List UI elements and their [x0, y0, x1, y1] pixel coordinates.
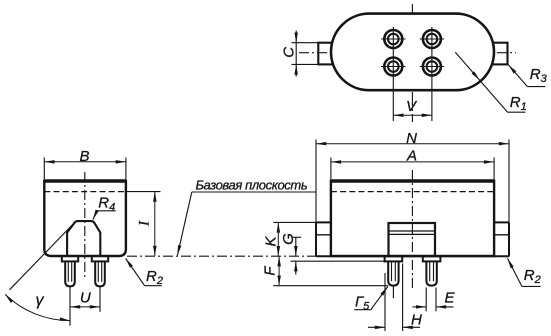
radius label R4 leader	[93, 211, 97, 220]
top view: pin column line right	[431, 27, 433, 121]
dimension B	[44, 161, 126, 163]
svg-text:Базовая плоскость: Базовая плоскость	[196, 177, 308, 192]
svg-text:E: E	[445, 289, 456, 306]
dimension G top tick	[291, 236, 301, 238]
side view: body top edge thick	[44, 179, 127, 182]
front view: bottom edge	[316, 255, 509, 257]
top view: oval package body	[331, 14, 494, 91]
front view: right tab	[508, 222, 510, 256]
side view: left pin	[65, 261, 75, 286]
front view: centerline	[411, 170, 413, 291]
front view: right pin	[426, 261, 436, 285]
top view: right mounting tab	[493, 43, 508, 65]
dimension A extension lines	[330, 158, 332, 180]
dimension N extension lines	[315, 140, 317, 223]
radius label R1 leader	[455, 52, 507, 112]
base plane label leader	[177, 192, 191, 255]
dimension K	[277, 222, 279, 256]
right pin axis extension	[99, 287, 101, 312]
front view: central block	[389, 223, 436, 256]
dimension A	[331, 161, 494, 163]
dimension B extension lines	[43, 158, 45, 180]
svg-text:N: N	[406, 130, 417, 147]
dimension F	[278, 256, 280, 286]
gamma angle arc	[5, 294, 70, 320]
left pin axis extension	[69, 287, 71, 326]
front view: right pin collar	[423, 256, 441, 261]
dimension I extension line	[126, 191, 161, 193]
dimension U	[70, 306, 100, 308]
side view: glass seam dashed line	[44, 191, 126, 193]
side view: right pin	[95, 261, 105, 286]
side view: package body	[44, 181, 126, 256]
svg-text:G: G	[280, 233, 297, 245]
svg-text:K: K	[262, 236, 279, 247]
front view: left pin axis below	[392, 287, 394, 299]
radius label R2 left view leader	[126, 258, 145, 285]
dimension E extension lines	[425, 288, 427, 312]
dimension V	[393, 114, 432, 116]
top view: pin 2	[423, 30, 441, 48]
side view: right pin collar	[92, 256, 108, 261]
dimension C	[295, 31, 297, 77]
svg-text:I: I	[137, 220, 153, 227]
dimension G	[295, 237, 297, 256]
front view: body top edge thick	[330, 179, 494, 182]
front view: left pin	[388, 261, 398, 285]
top view: vertical centerline	[411, 4, 413, 122]
svg-text:H: H	[411, 312, 422, 329]
collar bottom extension line	[291, 260, 385, 262]
top view: pin 1	[384, 30, 402, 48]
base plane dash-dot line	[127, 255, 316, 257]
dimension N	[316, 143, 509, 145]
dimension H	[368, 326, 385, 328]
side view: center bump	[67, 221, 100, 256]
front view: left pin collar	[385, 256, 403, 261]
top view: pin 3	[384, 58, 402, 76]
side view: centerline	[84, 172, 86, 277]
gamma angle line	[10, 221, 76, 289]
top view: pin 4	[423, 58, 441, 76]
dimension K extension line	[273, 221, 316, 223]
pin bottom extension line	[273, 285, 388, 287]
svg-text:F: F	[261, 266, 278, 276]
dimension C extension lines	[292, 42, 319, 44]
top view: left mounting tab	[318, 43, 334, 65]
top view: pin column line left	[392, 27, 394, 121]
front view: package body	[331, 181, 494, 256]
dimension I	[154, 192, 156, 256]
svg-text:B: B	[79, 148, 89, 165]
front view: left tab	[315, 222, 317, 256]
svg-text:A: A	[406, 147, 417, 164]
svg-text:U: U	[80, 290, 91, 307]
label Г5 leader	[371, 287, 388, 310]
base plane label underline	[192, 191, 316, 193]
top view: horizontal centerline	[299, 52, 516, 54]
radius label R2 front view leader	[508, 258, 522, 286]
dimension H extension lines	[384, 273, 386, 331]
label Г5 underline	[354, 309, 371, 311]
dimension E	[413, 306, 427, 308]
side view: left pin collar	[62, 256, 78, 261]
front view: glass seam dashed line	[331, 191, 494, 193]
radius label R3 leader	[508, 65, 527, 87]
svg-text:γ: γ	[36, 292, 45, 309]
svg-text:C: C	[281, 47, 298, 58]
